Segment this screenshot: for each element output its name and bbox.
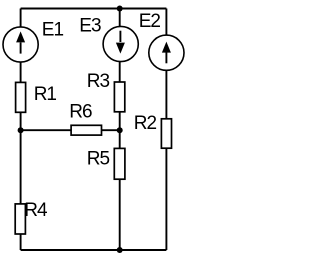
- svg-text:E1: E1: [42, 20, 64, 41]
- wire: E1 to R1: [20, 62, 22, 82]
- resistor R3: [114, 82, 124, 112]
- svg-text:E2: E2: [139, 11, 161, 32]
- wire: E2 stem from top rail: [165, 9, 167, 35]
- wire: bottom rail: [21, 249, 167, 251]
- node: top rail junction dot at E3 stem: [117, 6, 123, 12]
- wire: R3 to middle node: [119, 112, 121, 130]
- svg-text:R4: R4: [24, 200, 48, 221]
- wire: R2 to bottom rail: [165, 148, 167, 250]
- source E2: [149, 35, 184, 70]
- resistor R2: [161, 119, 171, 148]
- source E3: [103, 26, 138, 61]
- wire: E2 to R2: [165, 70, 167, 119]
- svg-text:E3: E3: [79, 16, 101, 37]
- wire: left node to R6: [21, 129, 72, 131]
- wire: R4 to bottom rail: [20, 234, 22, 250]
- resistor R1: [16, 82, 26, 112]
- wire: E3 stem from top rail: [119, 9, 121, 27]
- wire: top rail: [21, 8, 167, 10]
- resistor R5: [114, 148, 125, 179]
- resistor R4: [15, 204, 25, 234]
- svg-text:R1: R1: [34, 84, 57, 105]
- wire: middle node to R5: [119, 130, 121, 148]
- wire: E3 to R3: [119, 62, 121, 82]
- svg-text:R5: R5: [87, 149, 110, 170]
- wire: E1 stem from top rail to E1 circle: [20, 9, 22, 27]
- wire: R6 to middle node: [102, 129, 120, 131]
- source E1: [3, 27, 38, 62]
- node: middle junction dot: [117, 127, 123, 133]
- svg-text:R6: R6: [69, 102, 92, 123]
- wire: R1 down through node to R4: [20, 112, 22, 204]
- svg-text:R3: R3: [87, 71, 110, 92]
- wire: R5 to bottom rail: [119, 179, 121, 250]
- node: left junction dot: [18, 127, 24, 133]
- node: bottom rail junction dot: [117, 247, 123, 253]
- resistor R6: [71, 125, 101, 135]
- svg-text:R2: R2: [134, 113, 157, 134]
